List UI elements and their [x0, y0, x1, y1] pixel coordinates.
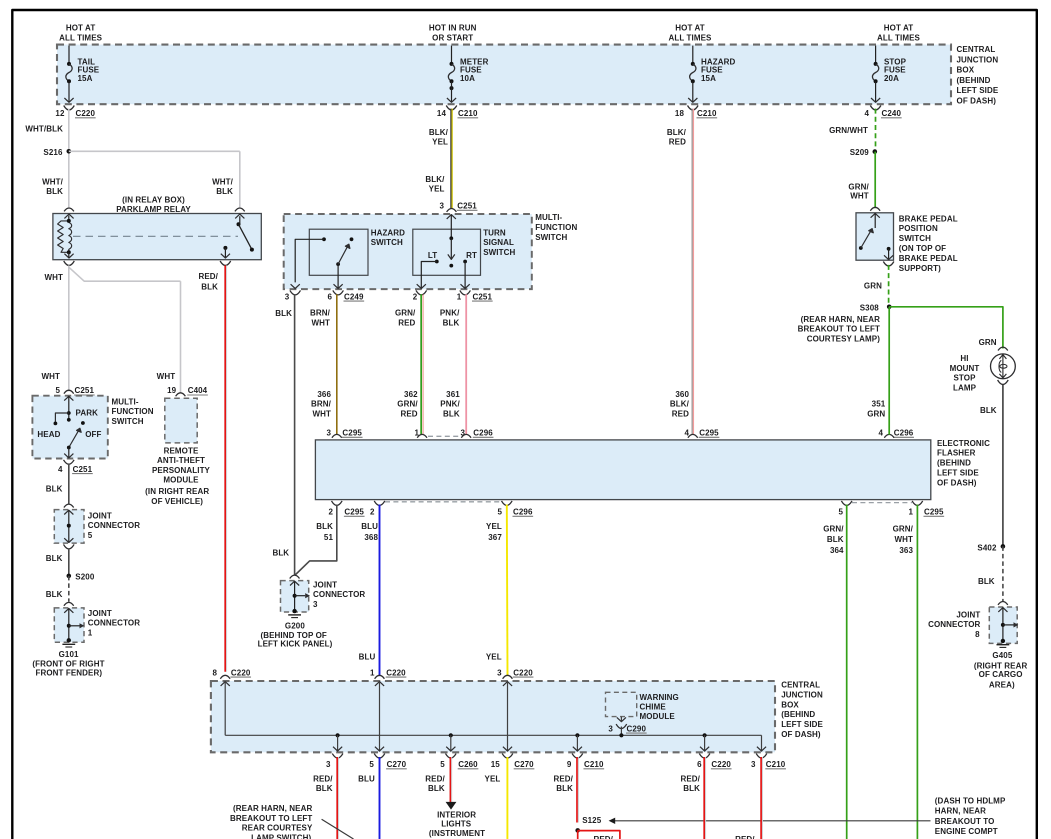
- wire GRN from S308 down to flasher pin 4 C296: [888, 307, 890, 435]
- svg-text:2: 2: [413, 292, 418, 301]
- wire RED/BLK from pin 9 C210 to S125: [577, 757, 578, 823]
- svg-text:SWITCH: SWITCH: [371, 238, 403, 247]
- svg-text:8: 8: [212, 668, 217, 677]
- electronic flasher body: [315, 440, 930, 500]
- wire label RED/BLK pin3: [313, 774, 333, 793]
- svg-text:WHT: WHT: [311, 318, 330, 327]
- svg-text:SWITCH: SWITCH: [483, 248, 515, 257]
- switch exit pins 3, 6 C249, 2, 1 C251: [285, 284, 493, 301]
- svg-text:BLK/: BLK/: [429, 128, 449, 137]
- CJB internal wire from pin 8 and bus: [221, 682, 762, 752]
- svg-text:RED/: RED/: [593, 835, 613, 839]
- svg-text:4: 4: [864, 109, 869, 118]
- svg-text:(BEHIND: (BEHIND: [937, 459, 971, 468]
- svg-text:WHT: WHT: [157, 372, 176, 381]
- wire label RED/BLK pin9: [553, 774, 573, 793]
- wire BLK from switch pin 3 to joint connector 3: [275, 294, 294, 575]
- relay pin top-right connector: [235, 208, 245, 218]
- svg-text:14: 14: [437, 109, 447, 118]
- relay switch contacts: [223, 216, 254, 258]
- svg-text:3: 3: [326, 429, 331, 438]
- circuit label 361 PNK/BLK: [440, 390, 460, 418]
- warning chime module label: [640, 693, 679, 721]
- svg-text:BRAKE PEDAL: BRAKE PEDAL: [899, 254, 958, 263]
- svg-text:5: 5: [369, 760, 374, 769]
- brake pedal position switch body: [856, 207, 894, 260]
- wire GRN from S308 to hi mount stop lamp: [889, 307, 1003, 349]
- svg-text:CONNECTOR: CONNECTOR: [88, 619, 140, 628]
- svg-text:PNK/: PNK/: [440, 309, 460, 318]
- svg-text:S209: S209: [850, 148, 870, 157]
- svg-text:MODULE: MODULE: [163, 476, 199, 485]
- svg-text:RED/: RED/: [553, 774, 573, 783]
- svg-text:S216: S216: [43, 148, 63, 157]
- svg-text:BLK: BLK: [827, 535, 844, 544]
- svg-text:15: 15: [491, 760, 501, 769]
- svg-text:BLK: BLK: [46, 187, 63, 196]
- svg-text:BLK: BLK: [275, 309, 292, 318]
- svg-text:G405: G405: [992, 651, 1012, 660]
- svg-text:C210: C210: [697, 109, 717, 118]
- svg-text:C270: C270: [387, 760, 407, 769]
- svg-text:OF DASH): OF DASH): [937, 478, 977, 487]
- wire RED/BLK from pin 3 to rear courtesy lamp harness: [337, 757, 338, 839]
- wire WHT/BLK from pin 12 to S216 and relay: [25, 109, 68, 208]
- connector pin 19 C404: [167, 386, 208, 396]
- svg-text:WHT/BLK: WHT/BLK: [25, 125, 63, 134]
- svg-text:BRAKE PEDAL: BRAKE PEDAL: [899, 214, 958, 223]
- remote module location label: [145, 487, 209, 506]
- svg-text:LEFT SIDE: LEFT SIDE: [957, 86, 999, 95]
- svg-text:5: 5: [55, 386, 60, 395]
- courtesy lamp callout line: [322, 819, 354, 839]
- svg-text:FLASHER: FLASHER: [937, 449, 976, 458]
- svg-text:BLK: BLK: [980, 406, 997, 415]
- splice S125 with callout arrow: [575, 816, 930, 833]
- joint connector 1 with ground: [54, 602, 140, 647]
- svg-text:RED: RED: [398, 318, 415, 327]
- svg-text:CONNECTOR: CONNECTOR: [88, 521, 140, 530]
- CJB internal wire from pin 3 C220: [503, 682, 512, 752]
- svg-text:BLK: BLK: [216, 187, 233, 196]
- svg-text:C249: C249: [344, 292, 364, 301]
- svg-text:C251: C251: [473, 292, 493, 301]
- svg-text:ELECTRONIC: ELECTRONIC: [937, 439, 990, 448]
- svg-text:SWITCH: SWITCH: [112, 417, 144, 426]
- svg-text:WHT: WHT: [312, 409, 331, 418]
- svg-text:5: 5: [88, 531, 93, 540]
- svg-text:RED: RED: [672, 409, 689, 418]
- svg-text:20A: 20A: [884, 74, 899, 83]
- svg-text:YEL: YEL: [486, 522, 502, 531]
- svg-text:367: 367: [488, 533, 502, 542]
- svg-text:WHT: WHT: [41, 372, 60, 381]
- splice S209: [850, 148, 877, 157]
- svg-text:15A: 15A: [701, 74, 716, 83]
- wire BLK dashed S402 to joint connector 8: [978, 546, 1003, 601]
- svg-text:1: 1: [908, 508, 913, 517]
- svg-text:2: 2: [328, 508, 333, 517]
- hazard switch label: [371, 228, 405, 247]
- wire label RED/BLK pin5: [425, 774, 445, 793]
- remote anti-theft personality module label: [152, 447, 211, 485]
- hazard switch internals: [295, 237, 353, 288]
- fuse METER FUSE 10A with HOT IN RUN OR START feed: [429, 24, 489, 110]
- wire GRN/WHT dashed from stop fuse pin 4 C240 to S209: [875, 109, 877, 150]
- wire label GRN/WHT 363: [893, 525, 914, 555]
- svg-text:SWITCH: SWITCH: [899, 234, 931, 243]
- svg-text:C251: C251: [457, 202, 477, 211]
- svg-text:MODULE: MODULE: [640, 712, 676, 721]
- svg-text:8: 8: [975, 630, 980, 639]
- svg-text:BREAKOUT TO: BREAKOUT TO: [935, 817, 995, 826]
- svg-text:JOINT: JOINT: [313, 581, 337, 590]
- svg-text:PARK: PARK: [76, 408, 99, 417]
- svg-text:S402: S402: [977, 543, 997, 552]
- joint connector 5: [54, 504, 140, 549]
- hazard switch box: [309, 229, 368, 275]
- svg-text:RED: RED: [400, 409, 417, 418]
- wire BLK/RED from hazard fuse pin 18 to flasher pin 4 C295: [692, 109, 693, 435]
- multi-function switch label: [112, 398, 154, 426]
- ground G405 label: [974, 651, 1028, 689]
- svg-text:WHT/: WHT/: [42, 178, 64, 187]
- svg-text:MOUNT: MOUNT: [950, 364, 980, 373]
- svg-text:BLU: BLU: [361, 522, 378, 531]
- wire BRN/WHT from pin 6 C249 to flasher pin 3 C295: [336, 294, 338, 434]
- multi-function switch (headlamp) body: [32, 396, 107, 459]
- brake switch exit connector: [883, 262, 894, 266]
- svg-text:OFF: OFF: [85, 430, 101, 439]
- svg-text:GRN: GRN: [979, 338, 997, 347]
- svg-text:BLU: BLU: [358, 774, 375, 783]
- flasher bottom pins 2 C295, 2, 5 C296, 5, 1 C295: [328, 501, 944, 517]
- svg-text:51: 51: [324, 533, 334, 542]
- ground G101 label: [32, 650, 104, 677]
- multi-function switch (hazard/turn) label: [535, 213, 577, 242]
- S308 location label: [798, 315, 881, 344]
- bus junction dots and exit stubs: [333, 733, 766, 751]
- svg-text:OF VEHICLE): OF VEHICLE): [151, 497, 203, 506]
- svg-text:ENGINE COMPT: ENGINE COMPT: [935, 827, 998, 836]
- svg-text:BLK: BLK: [201, 283, 218, 292]
- relay U1 parklamp relay body: [53, 214, 261, 260]
- svg-text:(BEHIND TOP OF: (BEHIND TOP OF: [260, 631, 326, 640]
- svg-text:(IN RELAY BOX): (IN RELAY BOX): [122, 196, 185, 205]
- wire BLK 51 from flasher pin 2 C295 to joint connector 3: [295, 505, 337, 576]
- relay pin bottom-left connector: [64, 252, 75, 265]
- turn signal switch internals LT RT: [421, 215, 477, 289]
- svg-text:GRN/: GRN/: [848, 183, 869, 192]
- svg-text:BOX: BOX: [957, 66, 975, 75]
- svg-text:C220: C220: [76, 109, 96, 118]
- svg-text:1: 1: [457, 292, 462, 301]
- flasher top pins 3 C295, 1, 3 C296, 4 C295, 4 C296: [326, 429, 914, 438]
- svg-text:OF DASH): OF DASH): [781, 730, 821, 739]
- svg-text:FRONT FENDER): FRONT FENDER): [35, 668, 102, 677]
- svg-text:WHT: WHT: [894, 535, 913, 544]
- wire BLK from lamp to S402: [980, 385, 1003, 547]
- svg-text:C295: C295: [342, 429, 362, 438]
- svg-text:ALL TIMES: ALL TIMES: [877, 33, 921, 42]
- svg-text:C295: C295: [924, 508, 944, 517]
- svg-text:YEL: YEL: [432, 138, 448, 147]
- svg-text:LIGHTS: LIGHTS: [441, 819, 471, 828]
- svg-text:360: 360: [675, 390, 689, 399]
- svg-text:RED/: RED/: [313, 774, 333, 783]
- wire BLU from flasher pin 2 to CJB pin 1 C220: [359, 505, 380, 677]
- svg-text:366: 366: [317, 390, 331, 399]
- svg-text:BRN/: BRN/: [311, 400, 332, 409]
- svg-text:RED/: RED/: [680, 774, 700, 783]
- svg-text:363: 363: [899, 546, 913, 555]
- wire label GRN/RED: [395, 309, 416, 328]
- svg-text:(REAR HARN, NEAR: (REAR HARN, NEAR: [801, 315, 880, 324]
- svg-text:SUPPORT): SUPPORT): [899, 264, 941, 273]
- svg-text:BLK/: BLK/: [425, 175, 445, 184]
- svg-text:C260: C260: [458, 760, 478, 769]
- relay pin top-left connector: [64, 208, 74, 218]
- splice S308: [860, 303, 892, 312]
- svg-text:C295: C295: [699, 429, 719, 438]
- svg-text:HAZARD: HAZARD: [371, 228, 405, 237]
- svg-text:(BEHIND: (BEHIND: [957, 76, 991, 85]
- joint connector 3 with ground G200: [281, 575, 366, 618]
- svg-text:3: 3: [608, 724, 613, 733]
- wire GRN/BLK 364 from flasher pin 5 to bottom: [846, 505, 848, 839]
- svg-text:JUNCTION: JUNCTION: [957, 55, 999, 64]
- wire label RED/BLK pin6: [680, 774, 700, 793]
- svg-text:BOX: BOX: [781, 700, 799, 709]
- svg-text:BLK/: BLK/: [667, 128, 687, 137]
- svg-text:CONNECTOR: CONNECTOR: [313, 590, 365, 599]
- svg-text:19: 19: [167, 386, 177, 395]
- svg-text:JUNCTION: JUNCTION: [781, 690, 823, 699]
- wire label WHT above remote module: [157, 372, 176, 381]
- splice S402: [977, 543, 1005, 552]
- connector pin 12 C220: [55, 109, 95, 118]
- svg-text:ANTI-THEFT: ANTI-THEFT: [157, 456, 205, 465]
- svg-text:C210: C210: [584, 760, 604, 769]
- wire label BLK 51: [316, 522, 333, 542]
- svg-text:GRN: GRN: [864, 281, 882, 290]
- wire label BLU 368: [361, 522, 378, 542]
- circuit label 351 GRN: [867, 400, 886, 419]
- wire GRN/WHT 363 from flasher pin 1 C295 to bottom: [916, 505, 918, 839]
- svg-text:SWITCH: SWITCH: [535, 233, 567, 242]
- relay coil: [58, 216, 72, 255]
- svg-text:HOT AT: HOT AT: [66, 24, 95, 33]
- svg-text:HOT AT: HOT AT: [675, 24, 704, 33]
- svg-text:CENTRAL: CENTRAL: [957, 45, 996, 54]
- svg-text:C270: C270: [514, 760, 534, 769]
- svg-text:C296: C296: [473, 429, 493, 438]
- svg-text:G101: G101: [59, 650, 79, 659]
- svg-text:GRN: GRN: [867, 409, 885, 418]
- svg-text:BLU: BLU: [359, 652, 376, 661]
- connector pin 18 C210: [675, 109, 717, 118]
- svg-text:BLK: BLK: [443, 409, 460, 418]
- svg-text:CENTRAL: CENTRAL: [781, 681, 820, 690]
- svg-text:COURTESY LAMP): COURTESY LAMP): [807, 334, 880, 343]
- svg-text:PARKLAMP RELAY: PARKLAMP RELAY: [116, 205, 191, 214]
- svg-text:RED/: RED/: [198, 272, 218, 281]
- svg-text:3: 3: [326, 760, 331, 769]
- turn signal switch label: [483, 228, 515, 257]
- ground G200 label: [258, 621, 333, 648]
- wire label GRN/BLK 364: [823, 525, 844, 555]
- svg-text:S200: S200: [75, 573, 95, 582]
- svg-text:C210: C210: [766, 760, 786, 769]
- svg-text:9: 9: [567, 760, 572, 769]
- svg-text:C296: C296: [513, 508, 533, 517]
- svg-text:10A: 10A: [460, 74, 475, 83]
- interior lights arrow: [446, 802, 457, 810]
- svg-text:GRN/WHT: GRN/WHT: [829, 126, 868, 135]
- svg-text:REAR COURTESY: REAR COURTESY: [242, 824, 313, 833]
- wire GRN/RED from pin 2 to flasher pin 1: [421, 294, 423, 434]
- svg-text:GRN/: GRN/: [893, 525, 914, 534]
- svg-text:LAMP SWITCH): LAMP SWITCH): [251, 833, 311, 839]
- svg-text:MULTI-: MULTI-: [112, 398, 139, 407]
- svg-text:PERSONALITY: PERSONALITY: [152, 466, 211, 475]
- wire RED/BLK from relay to CJB pin 8: [225, 265, 226, 671]
- svg-text:C220: C220: [386, 668, 406, 677]
- wire label BLK/YEL upper: [429, 128, 449, 147]
- svg-text:5: 5: [838, 508, 843, 517]
- svg-text:FUNCTION: FUNCTION: [112, 407, 154, 416]
- svg-text:15A: 15A: [78, 74, 93, 83]
- joint connector 8 with ground G405: [928, 602, 1018, 648]
- svg-text:361: 361: [446, 390, 460, 399]
- svg-text:REMOTE: REMOTE: [164, 447, 199, 456]
- wire YEL from pin 15 C270 to bottom: [485, 757, 508, 839]
- rear courtesy lamp harness label: [230, 804, 313, 839]
- svg-text:WARNING: WARNING: [640, 693, 679, 702]
- svg-text:362: 362: [404, 390, 418, 399]
- splice S200: [67, 573, 95, 582]
- central junction box (lower) body: [211, 681, 775, 752]
- svg-text:6: 6: [327, 292, 332, 301]
- wire label WHT above multi-function switch: [41, 372, 60, 381]
- svg-text:(DASH TO HDLMP: (DASH TO HDLMP: [935, 797, 1006, 806]
- CJB exit connectors row: [326, 754, 786, 769]
- svg-text:BLK: BLK: [443, 318, 460, 327]
- svg-text:PNK/: PNK/: [440, 400, 460, 409]
- central junction box (top) label: [957, 45, 999, 106]
- svg-text:C251: C251: [75, 386, 95, 395]
- connector pin 5 C251: [55, 386, 94, 395]
- fuse HAZARD FUSE 15A with HOT AT ALL TIMES feed: [669, 24, 736, 110]
- svg-text:WHT: WHT: [850, 191, 869, 200]
- central junction box (top) body: [57, 45, 951, 105]
- svg-text:3: 3: [285, 292, 290, 301]
- svg-text:1: 1: [370, 668, 375, 677]
- svg-text:LEFT KICK PANEL): LEFT KICK PANEL): [258, 640, 333, 649]
- brake pedal position switch label: [899, 214, 958, 272]
- svg-text:C404: C404: [188, 386, 208, 395]
- relay caption (IN RELAY BOX) PARKLAMP RELAY: [116, 196, 191, 215]
- brake pedal position switch internals: [859, 213, 893, 259]
- wire GRN dashed from brake switch to S308: [864, 265, 889, 304]
- wire RED/BLK from pin 6 C220 to bottom: [704, 757, 705, 839]
- circuit label 360 BLK/RED: [670, 390, 690, 418]
- wire WHT/BLK branch from S216 to relay right pin: [69, 151, 240, 207]
- svg-text:GRN/: GRN/: [823, 525, 844, 534]
- svg-text:RED/: RED/: [425, 774, 445, 783]
- relay pin bottom-right connector: [220, 254, 231, 266]
- svg-text:G200: G200: [285, 621, 305, 630]
- svg-text:3: 3: [497, 668, 502, 677]
- svg-text:C220: C220: [513, 668, 533, 677]
- svg-text:C220: C220: [231, 668, 251, 677]
- relay internal dashed link: [73, 235, 238, 237]
- hi mount stop lamp: [991, 347, 1016, 384]
- svg-text:5: 5: [440, 760, 445, 769]
- svg-text:JOINT: JOINT: [956, 610, 980, 619]
- wire GRN/WHT from S209 to brake pedal position switch: [874, 152, 876, 209]
- svg-text:C296: C296: [894, 429, 914, 438]
- svg-text:3: 3: [751, 760, 756, 769]
- connector pin 4 C251: [58, 460, 93, 474]
- svg-text:BLK: BLK: [428, 784, 445, 793]
- svg-text:ALL TIMES: ALL TIMES: [669, 33, 713, 42]
- svg-text:C295: C295: [344, 508, 364, 517]
- svg-text:OF CARGO: OF CARGO: [979, 670, 1023, 679]
- wire label GRN at lamp: [979, 338, 997, 347]
- svg-text:C240: C240: [882, 109, 902, 118]
- svg-text:RT: RT: [466, 251, 477, 260]
- wire label BLK above joint connector 3: [272, 549, 289, 558]
- svg-text:LEFT SIDE: LEFT SIDE: [781, 720, 823, 729]
- svg-text:(BEHIND: (BEHIND: [781, 710, 815, 719]
- wire label RED fragment left: [593, 835, 613, 839]
- wire BLK/YEL from meter fuse pin 14 to switch pin 3 C251: [451, 109, 452, 209]
- wire PNK/BLK from pin 1 C251 to flasher pin 3 C296: [465, 294, 467, 434]
- remote anti-theft personality module body: [165, 398, 197, 443]
- svg-text:JOINT: JOINT: [88, 512, 112, 521]
- svg-text:5: 5: [497, 508, 502, 517]
- svg-text:364: 364: [830, 546, 844, 555]
- wire BLK joint connector 5 to S200: [46, 549, 69, 576]
- circuit label 362 GRN/RED: [397, 390, 418, 418]
- multi-function switch (hazard/turn) body: [284, 214, 532, 289]
- svg-text:(ON TOP OF: (ON TOP OF: [899, 244, 946, 253]
- hi mount stop lamp label: [950, 354, 980, 393]
- connector pin 8 C220: [212, 668, 251, 678]
- wire BLU from pin 5 C270 to bottom: [358, 757, 379, 839]
- svg-text:CHIME: CHIME: [640, 703, 667, 712]
- wire RED/BLK from pin 3 C210 to bottom: [761, 757, 762, 839]
- wire YEL from flasher pin 5 C296 to CJB pin 3 C220: [486, 505, 508, 677]
- connector pin 4 C240: [864, 109, 901, 118]
- fuse TAIL FUSE 15A with HOT AT ALL TIMES feed: [59, 24, 103, 110]
- svg-text:HOT AT: HOT AT: [884, 24, 913, 33]
- svg-text:1: 1: [88, 628, 93, 637]
- svg-text:HARN, NEAR: HARN, NEAR: [935, 807, 986, 816]
- svg-text:INTERIOR: INTERIOR: [437, 810, 476, 819]
- svg-text:4: 4: [58, 465, 63, 474]
- svg-text:LEFT SIDE: LEFT SIDE: [937, 469, 979, 478]
- svg-text:3: 3: [313, 600, 318, 609]
- wire BLK S200 to joint connector 1 (dashed): [46, 576, 69, 602]
- svg-text:TURN: TURN: [483, 228, 506, 237]
- svg-text:6: 6: [697, 760, 702, 769]
- svg-text:LT: LT: [428, 251, 437, 260]
- interior lights label: [429, 810, 485, 837]
- wire label YEL 367: [486, 522, 502, 542]
- svg-text:C210: C210: [458, 109, 478, 118]
